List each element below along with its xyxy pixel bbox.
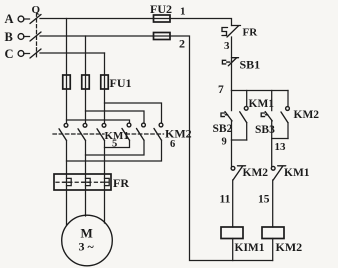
- fuse FU1 pole 1: [63, 75, 71, 89]
- contactor KM2 aux NO contact: [281, 91, 289, 139]
- contactor KM2 NC interlock contact: [231, 166, 245, 180]
- wire FR to motor phase 1: [66, 190, 68, 225]
- wire bus L3 down: [104, 53, 106, 75]
- wire KM2 contact1 crossover to L3: [105, 140, 130, 147]
- wire line 2 down and along bottom: [170, 36, 273, 261]
- fuse FU1 pole 3: [101, 75, 109, 89]
- svg-text:KM2: KM2: [276, 240, 303, 254]
- wire node 7 rail: [232, 90, 289, 92]
- svg-text:2: 2: [179, 37, 185, 51]
- wire: [231, 140, 233, 166]
- wire line 1 to FR contact: [170, 19, 232, 26]
- fuse FU2 pole 2: [154, 33, 171, 40]
- svg-text:FR: FR: [243, 27, 259, 39]
- wire: [24, 18, 30, 20]
- wire bus L2 down: [85, 36, 87, 75]
- thermal relay FR box: [54, 174, 111, 190]
- contactor KM1 main contact 2: [78, 123, 87, 140]
- wire FR to motor phase 3: [104, 190, 106, 223]
- wire: [271, 139, 273, 167]
- wire: [24, 53, 30, 55]
- svg-text:1: 1: [180, 6, 186, 18]
- svg-text:13: 13: [275, 141, 287, 153]
- wire tap L1 to KM2 contact 1: [67, 120, 130, 123]
- contactor KM2 main contact 1: [122, 123, 131, 140]
- FR heater element 3: [101, 174, 109, 190]
- svg-text:M: M: [81, 226, 93, 241]
- FR heater element 2: [82, 174, 90, 190]
- thermal relay FR NC contact: [222, 26, 241, 38]
- wire FR to motor phase 2: [85, 190, 87, 216]
- wire L1 contacts to FR: [66, 141, 68, 175]
- svg-text:FU2: FU2: [150, 2, 172, 16]
- wire node 9: [232, 139, 247, 141]
- wire tap L3 to KM2 contact 3: [105, 103, 162, 123]
- wire bus L1 down: [66, 19, 68, 76]
- switch Q pole B blade: [30, 32, 41, 41]
- contactor KM1 NC interlock contact: [271, 166, 285, 180]
- pushbutton SB1 (stop, NC): [222, 58, 238, 66]
- wire: [232, 239, 234, 261]
- svg-text:FU1: FU1: [110, 76, 132, 90]
- svg-text:7: 7: [218, 84, 224, 96]
- svg-text:KM1: KM1: [284, 167, 310, 179]
- coil KM2: [262, 227, 284, 239]
- svg-text:A: A: [5, 12, 14, 26]
- svg-text:SB1: SB1: [240, 58, 261, 72]
- terminal A: [18, 16, 24, 22]
- svg-text:KIM1: KIM1: [235, 242, 265, 254]
- wire phase C: [40, 52, 105, 54]
- FR heater element 1: [63, 174, 71, 190]
- wire: [24, 36, 30, 38]
- pushbutton SB3 (start rev, NO): [261, 91, 272, 121]
- wire L1 fuse to contacts: [66, 89, 68, 123]
- svg-text:3 ~: 3 ~: [79, 240, 95, 254]
- pushbutton SB2 (start fwd, NO): [221, 91, 232, 121]
- svg-text:KM1: KM1: [249, 98, 275, 110]
- svg-text:6: 6: [170, 139, 175, 150]
- wire tap L2 to KM2 contact 2: [86, 111, 145, 123]
- wire: [272, 180, 274, 227]
- wire phase B to FU2: [40, 35, 154, 37]
- fuse FU1 pole 2: [82, 75, 90, 89]
- svg-text:11: 11: [220, 194, 231, 206]
- terminal B: [18, 34, 24, 40]
- terminal C: [18, 51, 24, 57]
- coil KIM1 (KM1): [221, 227, 243, 239]
- svg-text:KM2: KM2: [165, 127, 192, 141]
- FR linkage dash-dot: [56, 181, 101, 183]
- contactor KM1 main contact 1: [59, 123, 68, 140]
- svg-text:9: 9: [222, 137, 227, 148]
- svg-text:B: B: [5, 30, 13, 44]
- switch Q pole A blade: [30, 15, 41, 24]
- contactor KM2 main contact 2: [137, 123, 146, 140]
- wire phase A to FU2: [40, 18, 154, 20]
- wire node 13: [272, 138, 288, 140]
- svg-text:KM2: KM2: [243, 167, 269, 179]
- wire: [231, 37, 233, 62]
- wire: [231, 61, 233, 91]
- wire KM2 contact3 crossover to L1: [67, 140, 162, 161]
- svg-text:C: C: [5, 47, 14, 61]
- wire: [231, 121, 233, 140]
- switch Q linkage dashed line: [36, 13, 38, 57]
- svg-text:KM2: KM2: [294, 109, 320, 121]
- wire L3 contacts to FR: [104, 141, 106, 175]
- fuse FU2 pole 1: [154, 15, 171, 22]
- wire KM2 contact2 crossover to L2: [86, 140, 145, 155]
- svg-text:FR: FR: [113, 176, 129, 190]
- svg-text:15: 15: [258, 194, 270, 206]
- contactor KM1 main contact 3: [97, 123, 106, 140]
- motor M: [62, 215, 113, 266]
- wire: [271, 121, 273, 139]
- contactor KM2 main contact 3: [154, 123, 163, 140]
- wire: [232, 180, 234, 227]
- contactor KM1 aux NO contact: [240, 91, 248, 141]
- wire: [272, 239, 274, 261]
- wire L3 fuse to contacts: [104, 89, 106, 123]
- wire L2 fuse to contacts: [85, 89, 87, 123]
- KM2 main linkage dashed line: [126, 133, 164, 135]
- svg-text:3: 3: [224, 40, 230, 52]
- svg-text:SB2: SB2: [213, 123, 233, 135]
- wire L2 contacts to FR: [85, 141, 87, 175]
- switch Q pole C blade: [30, 49, 41, 58]
- KM1 main linkage dashed line: [53, 133, 104, 135]
